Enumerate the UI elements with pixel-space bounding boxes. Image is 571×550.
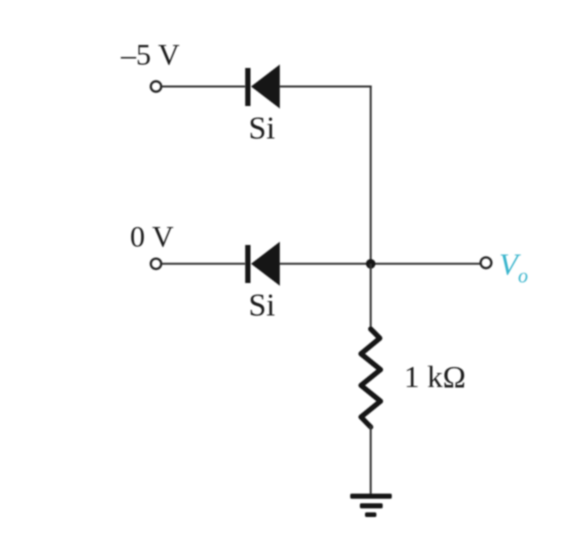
svg-text:Si: Si [249,287,276,323]
resistor R1 zigzag [361,329,381,427]
junction node [366,259,376,269]
svg-text:Si: Si [249,110,276,146]
svg-text:–5 V: –5 V [120,39,180,72]
wire: 0V terminal to diode D2 [162,263,245,265]
ground bar 1 [350,494,392,499]
terminal (0 V input) [151,259,161,269]
wire: resistor to ground [370,426,372,494]
terminal (-5 V input) [151,81,161,91]
wire: junction down to resistor [370,264,372,330]
svg-text:o: o [518,266,528,288]
diode D2 triangle [251,242,280,286]
ground bar 3 [365,512,376,517]
wire: vertical from corner down to junction [370,86,372,264]
wire: D2 to output terminal (through junction) [280,263,481,265]
svg-text:1 kΩ: 1 kΩ [404,359,466,394]
ground bar 2 [360,503,383,508]
wire: -5V terminal to diode D1 [162,86,245,88]
diode D2 cathode bar [245,245,250,283]
svg-text:0 V: 0 V [130,221,174,254]
diode D1 triangle [251,65,280,109]
terminal Vo (output) [481,257,492,268]
diode D1 cathode bar [245,68,250,106]
wire: D1 to top-right corner [280,86,372,88]
